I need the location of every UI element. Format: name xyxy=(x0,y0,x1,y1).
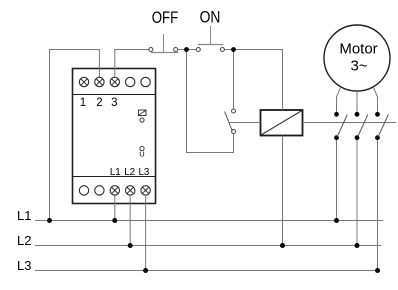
ON pushbutton S1 (NO) xyxy=(196,26,224,52)
junction contact3 on L3 xyxy=(375,268,380,273)
mechanical link coil to aux contact xyxy=(229,122,261,124)
svg-text:3: 3 xyxy=(111,97,117,109)
node A junction xyxy=(184,47,189,52)
svg-text:2: 2 xyxy=(96,97,102,109)
mechanical link coil to main contacts xyxy=(303,122,397,124)
wire L2 rail xyxy=(35,245,382,247)
svg-text:U: U xyxy=(139,150,144,159)
wire L3 rail xyxy=(35,270,379,272)
junction module L2 xyxy=(128,243,133,248)
wire latch loop node A to aux contact bottom xyxy=(187,50,234,153)
junction left loop on L1 xyxy=(47,218,52,223)
wire motor lead U xyxy=(337,87,341,114)
svg-text:L2: L2 xyxy=(17,233,31,248)
wire module L1 terminal to L1 rail xyxy=(114,195,116,221)
wire main contact 3 to L3 rail xyxy=(377,138,379,271)
wire main contact 1 to L1 rail xyxy=(336,138,338,221)
terminal L1 (bottom, connected) xyxy=(110,186,119,195)
junction contact1 on L1 xyxy=(334,218,339,223)
main contact 1 xyxy=(334,112,347,140)
main contact 2 xyxy=(355,112,368,140)
terminal 1 (top, connected) xyxy=(79,77,88,86)
wire L1 rail xyxy=(35,220,383,222)
junction coil A2 on L2 xyxy=(280,243,285,248)
terminal L3 (bottom, connected) xyxy=(141,186,150,195)
svg-text:L1: L1 xyxy=(110,167,121,178)
main contact 3 xyxy=(375,112,388,140)
OFF pushbutton S0 (NC) xyxy=(149,34,178,53)
monitoring relay module K1 body xyxy=(73,69,156,204)
node B junction xyxy=(231,47,236,52)
labels L1 L2 L3 (module) xyxy=(110,167,150,178)
svg-text:L1: L1 xyxy=(17,208,31,223)
wire module L2 terminal to L2 rail xyxy=(129,195,131,246)
wire module L3 terminal to L3 rail xyxy=(145,195,147,271)
contactor coil K1M xyxy=(261,110,303,136)
wire L1 to terminal 2 (left loop) xyxy=(50,50,100,221)
terminal 3 (top, connected) xyxy=(110,77,119,86)
terminal bottom-1 (unused) xyxy=(79,186,88,195)
junction module L3 xyxy=(143,268,148,273)
wire coil A2 to L2 xyxy=(282,136,284,246)
wire terminal 3 to OFF button xyxy=(115,50,149,78)
aux latching contact K1M 13-14 xyxy=(225,109,236,134)
svg-text:ON: ON xyxy=(200,8,221,27)
U supply LED xyxy=(140,146,144,150)
terminal bottom-2 (unused) xyxy=(95,186,104,195)
terminal 5 (top, unused) xyxy=(141,77,150,86)
svg-text:L2: L2 xyxy=(124,167,135,178)
wire main contact 2 to L2 rail xyxy=(356,138,358,246)
wire ON to coil A1 xyxy=(224,50,282,111)
wire node B to aux contact top xyxy=(233,50,235,110)
terminal labels 1 2 3 xyxy=(80,97,118,109)
wire OFF to ON xyxy=(178,49,197,51)
motor M1 xyxy=(324,25,390,91)
junction module L1 xyxy=(112,218,117,223)
terminal 4 (top, unused) xyxy=(126,77,135,86)
relay LED xyxy=(140,118,144,122)
wire motor lead W xyxy=(373,87,377,114)
svg-text:Motor: Motor xyxy=(339,41,377,58)
junction contact2 on L2 xyxy=(355,243,360,248)
relay output indicator symbol xyxy=(139,110,147,116)
svg-text:3~: 3~ xyxy=(350,58,367,75)
svg-text:L3: L3 xyxy=(138,167,149,178)
svg-text:1: 1 xyxy=(80,97,86,109)
terminal 2 (top, connected) xyxy=(95,77,104,86)
svg-text:L3: L3 xyxy=(17,258,31,273)
terminal L2 (bottom, connected) xyxy=(126,186,135,195)
wire motor lead V xyxy=(356,91,358,114)
svg-text:OFF: OFF xyxy=(152,9,179,28)
